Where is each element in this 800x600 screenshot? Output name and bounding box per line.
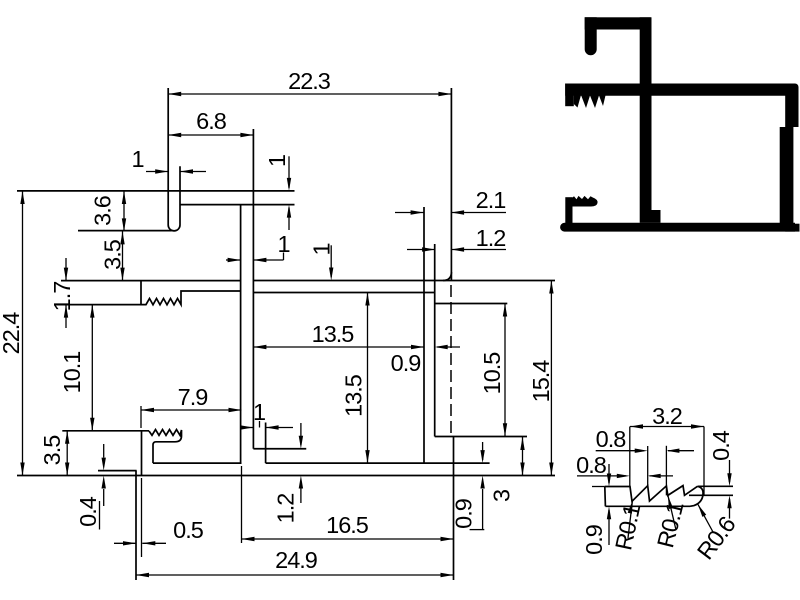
- hook right leg + square left wall: [640, 17, 652, 223]
- lower arm outer wall: [141, 431, 143, 476]
- dim 3.5 lower: [66, 431, 68, 476]
- dim 1.2 top: [407, 249, 435, 251]
- svg-text:22.3: 22.3: [288, 68, 331, 94]
- dim 1 hook wall: [146, 171, 168, 173]
- dim 3.5 upper: [122, 231, 124, 280]
- detail profile outline: [605, 486, 698, 502]
- leader R0.1 second: [668, 496, 676, 530]
- svg-text:0.8: 0.8: [596, 426, 627, 452]
- upper arm lower surface: [181, 204, 295, 206]
- chamber inner top: [253, 292, 434, 294]
- svg-text:0.9: 0.9: [581, 525, 607, 555]
- dim 7.9: [141, 409, 242, 411]
- svg-text:6.8: 6.8: [196, 108, 227, 134]
- pocket left wall: [434, 244, 436, 437]
- chamber inner bottom: [266, 462, 490, 464]
- detail bottom surface: [605, 505, 690, 507]
- svg-text:0.9: 0.9: [451, 499, 477, 529]
- detail dim 0.9: [608, 464, 610, 483]
- dim 1 chamber top wall: [330, 245, 332, 277]
- dim 0.9 bottom right: [482, 442, 484, 460]
- dim 1.7: [65, 258, 67, 281]
- svg-text:1.7: 1.7: [49, 282, 75, 312]
- svg-text:16.5: 16.5: [326, 512, 369, 538]
- detail top-left extension for 0.9: [592, 486, 605, 488]
- hook outer left wall + U bottom: [168, 88, 180, 231]
- hook left leg: [585, 17, 597, 55]
- hook top bar: [585, 17, 651, 29]
- step vertical x=265.6: [265, 423, 267, 464]
- leader R0.1 first: [628, 501, 633, 539]
- right pocket inner top: [435, 303, 508, 305]
- dim 22.3: [168, 93, 451, 95]
- dim 10.1: [91, 305, 93, 431]
- svg-text:0.8: 0.8: [576, 452, 607, 478]
- detail nose radius R0.6: [690, 486, 703, 506]
- dim 0.4: [103, 444, 105, 458]
- detail upper lip line: [698, 485, 734, 487]
- svg-text:1: 1: [309, 243, 335, 255]
- dim 13.5 vertical: [367, 293, 369, 464]
- middle arm bottom left part: [61, 304, 141, 306]
- detail dim 0.4: [729, 460, 731, 482]
- svg-text:1: 1: [277, 231, 289, 257]
- svg-text:0.4: 0.4: [75, 496, 101, 527]
- foot top surface: [62, 430, 149, 432]
- dim 6.8: [168, 134, 253, 136]
- arm left lip: [565, 84, 574, 107]
- step edge extension vertical: [135, 471, 137, 580]
- square bottom bar: [560, 223, 795, 232]
- right wall top tab: [785, 90, 798, 127]
- svg-text:3.5: 3.5: [39, 435, 65, 466]
- svg-text:10.1: 10.1: [59, 352, 85, 394]
- dim 24.9: [136, 574, 454, 576]
- right wall middle: [780, 127, 794, 224]
- svg-text:3.6: 3.6: [90, 195, 116, 226]
- interior bottom-left step: [652, 210, 661, 223]
- main arm bar: [565, 84, 798, 96]
- svg-text:13.5: 13.5: [341, 374, 367, 417]
- svg-text:1.2: 1.2: [476, 225, 506, 251]
- dim 13.5 horizontal: [253, 346, 424, 348]
- detail dim 0.8 second: [577, 475, 626, 477]
- snout fillet: [443, 272, 451, 281]
- dim 10.5: [504, 304, 506, 437]
- wall right face x=253.4: [252, 129, 254, 449]
- pocket floor: [435, 436, 527, 438]
- dim 3.6: [123, 191, 125, 231]
- hook slot bottom tangent line: [78, 230, 172, 232]
- lower arm slot bottom: [153, 462, 242, 464]
- dim 1 upper arm wall: [288, 156, 290, 188]
- foot leg: [565, 197, 572, 227]
- arm teeth: [574, 92, 607, 108]
- hidden outer right face (dashed): [450, 285, 452, 437]
- middle arm left end vertical: [140, 281, 142, 305]
- svg-text:1: 1: [131, 146, 143, 172]
- wall left face x=240.6: [240, 205, 242, 464]
- svg-text:10.5: 10.5: [479, 352, 505, 395]
- svg-text:24.9: 24.9: [275, 547, 317, 573]
- svg-text:3: 3: [489, 489, 515, 502]
- lower arm serration and finger: [149, 430, 182, 464]
- leader R0.6: [698, 505, 713, 533]
- svg-text:15.4: 15.4: [528, 360, 554, 403]
- svg-text:0.4: 0.4: [708, 430, 734, 461]
- svg-text:1: 1: [264, 155, 290, 167]
- svg-text:1: 1: [253, 399, 265, 425]
- dim 15.4: [550, 281, 552, 476]
- svg-text:0.9: 0.9: [391, 350, 421, 376]
- middle arm top surface: [61, 280, 241, 282]
- top surface line: [17, 190, 295, 192]
- chamber inner right wall: [423, 207, 425, 463]
- dim 0.5: [114, 542, 136, 544]
- svg-text:13.5: 13.5: [312, 321, 355, 347]
- svg-text:22.4: 22.4: [0, 312, 24, 355]
- svg-text:0.5: 0.5: [173, 517, 204, 543]
- dim 1.2 bottom: [300, 481, 302, 503]
- chamber left inner wall lower step: [253, 448, 306, 450]
- dim 1 chamber step: [240, 427, 253, 429]
- outer right face bottom: [453, 437, 455, 580]
- outer right face top: [450, 88, 452, 281]
- dim 0.9 main wall: [437, 346, 460, 348]
- middle arm serration: [141, 291, 241, 305]
- svg-text:2.1: 2.1: [476, 187, 506, 213]
- bottom-left step line: [98, 470, 137, 472]
- dim 22.4: [22, 191, 24, 476]
- right wall bottom tab: [785, 224, 799, 232]
- svg-text:7.9: 7.9: [178, 384, 208, 410]
- detail left cap: [604, 487, 607, 507]
- profile bottom line: [17, 475, 555, 477]
- detail dim 3.2: [630, 426, 704, 428]
- detail dim 0.8 first: [596, 450, 644, 452]
- dim 3 bottom right: [522, 437, 524, 476]
- detail groove floor line: [689, 494, 733, 496]
- chamber outer top surface: [253, 280, 555, 282]
- dim 2.1: [395, 212, 424, 214]
- foot serrated paw: [573, 196, 598, 207]
- dim 16.5: [242, 538, 454, 540]
- svg-text:3.5: 3.5: [100, 239, 126, 270]
- svg-text:3.2: 3.2: [652, 403, 682, 429]
- svg-text:1.2: 1.2: [273, 494, 299, 524]
- dim 1 mid wall: [226, 259, 241, 261]
